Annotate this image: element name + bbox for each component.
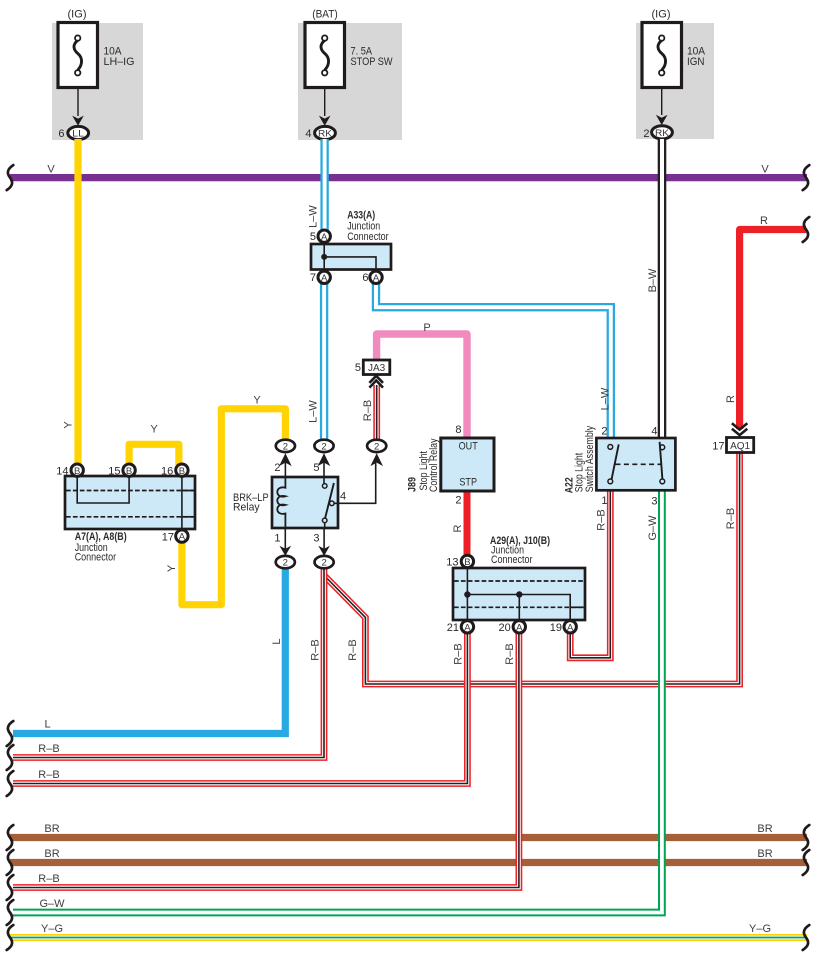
svg-text:(IG): (IG)	[68, 9, 87, 21]
svg-text:(IG): (IG)	[652, 9, 671, 21]
svg-text:JA3: JA3	[368, 363, 386, 374]
squiggle BR1 right	[803, 825, 810, 850]
svg-text:R–B: R–B	[504, 643, 516, 664]
splice AQ1 box	[727, 438, 754, 453]
arrow into oval relay pin 1	[280, 546, 292, 556]
oval relay pin 4 / JA3 branch	[367, 440, 386, 453]
fuse F3 10A IGN	[642, 23, 682, 88]
squiggle BR1 left	[7, 825, 14, 850]
oval relay pin 5	[314, 440, 333, 453]
svg-text:17: 17	[712, 441, 724, 453]
squiggle BR2 left	[7, 850, 14, 875]
A22 switch contact pin 1	[608, 479, 613, 484]
stop light control relay J89 body	[441, 438, 494, 491]
svg-text:20: 20	[499, 622, 511, 634]
junction connector A33(A) body	[311, 244, 391, 270]
A7 internal link pin 14 to pin 15	[77, 477, 129, 503]
svg-text:1: 1	[274, 533, 280, 545]
relay switch pin 5 lead	[323, 477, 325, 484]
svg-text:2: 2	[601, 426, 607, 438]
relay switch pin 3 lead	[324, 523, 326, 528]
wire R-B from BRK-LP relay pin 3 to left edge	[13, 568, 324, 758]
svg-text:R–B: R–B	[362, 400, 374, 421]
svg-text:R–B: R–B	[38, 873, 59, 885]
svg-text:Y: Y	[253, 395, 261, 407]
squiggle Y-G right	[803, 925, 810, 950]
arrow into oval relay pin 4	[370, 453, 383, 466]
A29 internal link pin 13 to pin 21	[466, 569, 468, 619]
junction connector A29(A),J10(B) body	[453, 568, 585, 620]
squiggle Y-G left	[7, 925, 14, 950]
A22 mechanical link dashed	[616, 463, 661, 465]
A29 internal bus dashed lines	[454, 580, 584, 582]
oval relay pin 3	[315, 556, 334, 569]
JA3 double chevron	[369, 376, 383, 388]
svg-text:R–B: R–B	[347, 639, 359, 660]
A33 internal link to pin 6	[324, 257, 376, 269]
relay switch contact pin 5	[322, 484, 327, 489]
svg-text:4: 4	[305, 128, 311, 140]
wire R-B from A22 pin 1 to A29 pin 19	[570, 486, 610, 658]
pin 19 A29	[564, 621, 576, 634]
svg-text:STP: STP	[459, 477, 477, 489]
junction connector A7(A),A8(B) body	[65, 476, 195, 529]
relay pin 2 stem above box	[284, 455, 286, 477]
oval relay pin 2	[276, 440, 295, 453]
svg-text:5: 5	[310, 231, 316, 243]
A29 bus solid segment lower right	[570, 606, 584, 608]
A22 right switch arm	[660, 442, 663, 479]
A22 switch contact pin 4	[660, 445, 665, 450]
svg-text:3: 3	[651, 496, 657, 508]
terminal 6 LL oval	[68, 126, 89, 139]
fuse F1 arrow into terminal	[72, 116, 84, 126]
svg-text:L–W: L–W	[308, 400, 320, 423]
svg-text:19: 19	[550, 622, 562, 634]
svg-text:LL: LL	[72, 129, 84, 140]
svg-text:BR: BR	[44, 823, 59, 835]
svg-text:6: 6	[362, 272, 368, 284]
wire R from right edge to splice AQ1	[740, 230, 806, 430]
relay switch contact pin 3	[322, 518, 327, 523]
A22 switch contact pin 3	[660, 479, 665, 484]
svg-text:L–W: L–W	[600, 387, 612, 410]
svg-text:R–B: R–B	[38, 743, 59, 755]
svg-text:L: L	[271, 638, 283, 644]
pin 20 A29	[513, 621, 525, 634]
svg-text:17: 17	[162, 532, 174, 544]
pin 6 A33	[370, 271, 382, 284]
A7 internal link pin 16 to pin 17	[181, 477, 183, 529]
svg-text:16: 16	[161, 466, 173, 478]
fuse F3 lead wire	[661, 88, 663, 115]
svg-text:BR: BR	[757, 848, 772, 860]
svg-text:V: V	[47, 164, 55, 176]
svg-text:R–B: R–B	[725, 508, 737, 529]
svg-text:Connector: Connector	[347, 231, 389, 243]
in-line connector JA3 box	[363, 360, 390, 375]
fuse F2 lead wire	[324, 88, 326, 116]
A7 bus solid segment upper right	[182, 490, 194, 492]
pin 21 A29	[461, 621, 473, 634]
svg-text:Control Relay: Control Relay	[428, 438, 440, 492]
wire V purple bus	[10, 174, 807, 181]
relay pin 4 wire to oval	[334, 463, 376, 503]
relay pin 3 stem below box	[323, 528, 325, 553]
svg-text:L: L	[44, 719, 50, 731]
wire L-W from A33 pin 7 to BRK-LP relay pin 5	[320, 283, 328, 440]
relay pin 1 stem below box	[284, 528, 286, 553]
svg-text:STOP SW: STOP SW	[351, 56, 394, 68]
A7 bus solid segment lower right	[182, 516, 194, 518]
wire Y jumper A7 pin 15 to pin 16	[129, 444, 179, 465]
fuse F2 arrow into terminal	[319, 116, 331, 126]
svg-text:15: 15	[108, 466, 120, 478]
relay switch arm	[325, 483, 334, 519]
wire R from J89 pin 2 to A29 pin 13	[464, 489, 471, 556]
wire L-W fuse STOP SW to A33 pin 5	[320, 139, 328, 230]
wire Y-G bus	[10, 934, 807, 941]
A29 internal link to pins 20 and 19	[467, 595, 570, 620]
squiggle R right	[803, 217, 810, 242]
arrow into oval relay pin 2	[279, 453, 292, 466]
svg-text:OUT: OUT	[459, 440, 478, 452]
svg-text:IGN: IGN	[687, 56, 705, 68]
squiggle V bus left	[7, 165, 14, 190]
pin 7 A33	[318, 271, 330, 284]
svg-text:AQ1: AQ1	[730, 441, 750, 452]
pin 16 A7	[176, 464, 188, 477]
svg-text:Connector: Connector	[75, 552, 117, 564]
A29 internal splice dot 2	[516, 591, 522, 597]
pin 15 A7	[123, 464, 135, 477]
fuse block background (IG) IGN	[636, 23, 714, 139]
A22 left switch arm	[612, 444, 619, 479]
svg-text:14: 14	[56, 466, 68, 478]
squiggle R-B2 left	[7, 771, 14, 796]
fuse F1 10A LH-IG	[58, 23, 98, 88]
svg-text:V: V	[761, 164, 769, 176]
svg-text:R: R	[760, 215, 768, 227]
squiggle L left	[7, 721, 14, 746]
svg-text:Y: Y	[166, 564, 178, 572]
svg-text:L–W: L–W	[308, 205, 320, 228]
A7 internal bus dashed lines	[66, 490, 194, 492]
svg-text:Switch Assembly: Switch Assembly	[584, 425, 596, 492]
pin 13 A29	[461, 555, 473, 568]
svg-text:4: 4	[651, 426, 657, 438]
svg-text:5: 5	[313, 462, 319, 474]
svg-text:2: 2	[643, 128, 649, 140]
svg-text:P: P	[423, 322, 430, 334]
svg-text:R–B: R–B	[453, 643, 465, 664]
wire L-W from A33 pin 6 to A22 pin 2	[376, 283, 611, 440]
svg-text:R: R	[725, 395, 737, 403]
svg-text:4: 4	[340, 491, 346, 503]
svg-text:Connector: Connector	[491, 554, 533, 566]
wire B-W fuse IGN to A22 pin 4	[658, 139, 667, 440]
AQ1 double chevron	[732, 423, 747, 435]
oval relay pin 1	[276, 556, 295, 569]
wire R-B from A29 pin 21 to left edge	[13, 633, 467, 784]
svg-text:Y: Y	[150, 424, 158, 436]
squiggle V bus right	[803, 165, 810, 190]
terminal 2 RK oval	[652, 126, 673, 139]
svg-text:2: 2	[455, 495, 461, 507]
svg-text:R: R	[452, 524, 464, 532]
pin 17 A7	[176, 530, 188, 543]
BRK-LP relay body	[272, 477, 338, 528]
svg-text:Y: Y	[63, 421, 75, 429]
svg-text:Y–G: Y–G	[41, 923, 63, 935]
squiggle R-B3 left	[7, 875, 14, 900]
svg-text:R–B: R–B	[310, 639, 322, 660]
relay pin 5 stem above box	[323, 455, 325, 477]
svg-text:5: 5	[355, 362, 361, 374]
svg-text:J89: J89	[406, 477, 418, 492]
svg-text:(BAT): (BAT)	[312, 9, 338, 21]
wire BR bus 1	[10, 834, 807, 841]
wire R-B from A29 pin 20 to left edge	[13, 633, 519, 888]
fuse F3 arrow into terminal	[656, 115, 668, 125]
svg-text:G–W: G–W	[647, 515, 659, 541]
svg-text:1: 1	[601, 495, 607, 507]
svg-text:G–W: G–W	[39, 898, 65, 910]
arrow into oval relay pin 5	[318, 453, 331, 466]
A29 internal splice dot 1	[464, 591, 470, 597]
svg-text:LH–IG: LH–IG	[104, 56, 135, 68]
svg-text:Y–G: Y–G	[749, 923, 771, 935]
svg-text:R–B: R–B	[38, 769, 59, 781]
svg-text:8: 8	[455, 424, 461, 436]
A33 internal splice dot	[321, 254, 327, 260]
wire Y fuse LH-IG to A7 pin 14	[74, 139, 81, 465]
fuse F1 lead wire	[77, 88, 79, 117]
svg-text:RK: RK	[318, 129, 333, 140]
wire G-W from A22 pin 3 to left edge	[13, 486, 662, 913]
squiggle BR2 right	[803, 850, 810, 875]
pin 14 A7	[71, 464, 83, 477]
svg-text:13: 13	[446, 557, 458, 569]
fuse block background (BAT) STOP SW	[298, 23, 402, 140]
svg-text:3: 3	[313, 533, 319, 545]
wire Y from A7 pin 17 to BRK-LP relay pin 2	[182, 409, 286, 605]
A33 internal link pin 5 to pin 7	[323, 245, 325, 269]
relay coil between pins 2 and 1	[277, 477, 285, 528]
wire R-B from BRK-LP relay pin 3 branch to splice AQ1	[325, 452, 739, 684]
svg-text:21: 21	[447, 622, 459, 634]
svg-text:R–B: R–B	[596, 509, 608, 530]
svg-text:RK: RK	[655, 128, 670, 139]
pin 5 A33	[318, 230, 330, 243]
wire P from JA3 to J89 pin 8	[377, 334, 467, 440]
squiggle R-B1 left	[7, 745, 14, 770]
wire L from BRK-LP relay pin 1 to left edge	[13, 568, 285, 734]
svg-text:BR: BR	[44, 848, 59, 860]
relay switch contact pin 4	[330, 501, 335, 506]
fuse block background (IG) LH-IG	[52, 23, 143, 140]
svg-text:2: 2	[274, 462, 280, 474]
squiggle G-W left	[7, 900, 14, 925]
svg-text:6: 6	[58, 128, 64, 140]
wire R-B from BRK-LP relay pin 4 oval to JA3	[373, 385, 380, 452]
A22 switch contact pin 2	[608, 445, 613, 450]
wire BR bus 2	[10, 859, 807, 866]
stop light switch A22 body	[596, 438, 675, 490]
svg-text:Relay: Relay	[233, 501, 260, 513]
svg-text:BR: BR	[757, 823, 772, 835]
fuse F2 7.5A STOP SW	[305, 23, 345, 88]
svg-text:B–W: B–W	[647, 268, 659, 292]
svg-text:7: 7	[310, 272, 316, 284]
terminal 4 RK oval	[315, 126, 336, 139]
arrow into oval relay pin 3	[318, 546, 330, 556]
